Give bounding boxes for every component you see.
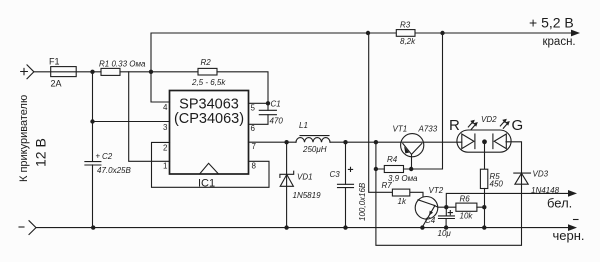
svg-text:L1: L1 — [299, 121, 308, 130]
svg-text:R6: R6 — [460, 195, 471, 204]
svg-text:+: + — [96, 152, 101, 161]
svg-text:1N5819: 1N5819 — [293, 191, 322, 200]
svg-text:R1 0.33 Ома: R1 0.33 Ома — [99, 60, 146, 69]
svg-text:красн.: красн. — [543, 36, 576, 48]
svg-text:450: 450 — [490, 180, 504, 189]
svg-text:F1: F1 — [49, 57, 60, 67]
svg-text:(CP34063): (CP34063) — [174, 111, 244, 127]
svg-text:A733: A733 — [418, 125, 438, 134]
svg-text:5: 5 — [251, 104, 256, 113]
svg-text:VD1: VD1 — [297, 173, 313, 182]
svg-text:470: 470 — [270, 117, 284, 126]
svg-text:1: 1 — [163, 162, 168, 171]
svg-text:R: R — [449, 117, 460, 134]
svg-text:250μH: 250μH — [302, 145, 327, 154]
svg-text:8: 8 — [252, 162, 257, 171]
svg-text:2: 2 — [163, 144, 168, 153]
svg-text:бел.: бел. — [547, 196, 572, 211]
svg-text:C1: C1 — [271, 100, 281, 109]
svg-text:1k: 1k — [398, 197, 407, 206]
svg-text:R3: R3 — [400, 21, 411, 30]
svg-text:2A: 2A — [51, 79, 62, 89]
svg-text:47.0x25В: 47.0x25В — [97, 166, 131, 175]
svg-text:7: 7 — [252, 142, 257, 151]
svg-text:10k: 10k — [460, 212, 474, 221]
svg-text:100,0x16В: 100,0x16В — [358, 182, 367, 221]
svg-text:VT2: VT2 — [429, 186, 444, 195]
svg-text:6: 6 — [251, 124, 256, 133]
svg-text:VT1: VT1 — [393, 125, 408, 134]
svg-text:VD2: VD2 — [481, 115, 497, 124]
svg-text:1N4148: 1N4148 — [531, 186, 560, 195]
svg-text:C3: C3 — [330, 170, 341, 179]
svg-text:G: G — [512, 117, 524, 134]
svg-text:10μ: 10μ — [438, 229, 452, 238]
svg-text:R2: R2 — [201, 58, 212, 67]
svg-text:3: 3 — [163, 123, 168, 132]
svg-text:4: 4 — [163, 103, 168, 112]
svg-text:черн.: черн. — [553, 228, 585, 243]
svg-text:3,9 Ома: 3,9 Ома — [388, 174, 418, 183]
svg-text:R7: R7 — [382, 181, 393, 190]
svg-text:R4: R4 — [387, 155, 398, 164]
svg-text:VD3: VD3 — [533, 170, 549, 179]
svg-text:C4: C4 — [425, 216, 436, 225]
svg-text:2,5 - 6,5k: 2,5 - 6,5k — [191, 78, 226, 87]
svg-text:C2: C2 — [102, 152, 113, 161]
svg-text:IC1: IC1 — [198, 178, 215, 190]
svg-text:+ 5,2 В: + 5,2 В — [529, 15, 574, 31]
svg-text:8,2k: 8,2k — [400, 37, 416, 46]
svg-text:К прикуривателю: К прикуривателю — [18, 95, 30, 182]
svg-text:12 В: 12 В — [32, 138, 48, 167]
